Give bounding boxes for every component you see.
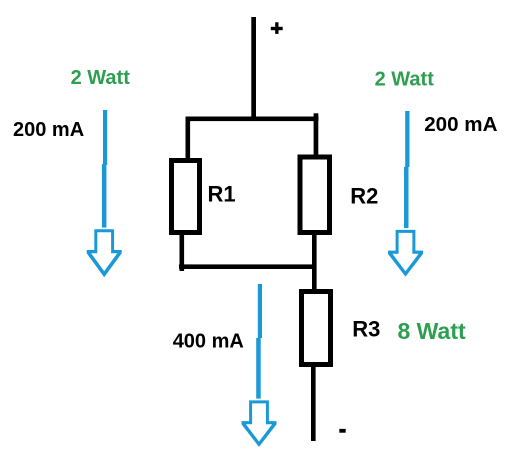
svg-text:2 Watt: 2 Watt (375, 69, 435, 91)
svg-text:R2: R2 (350, 184, 378, 209)
current arrow I2 head (right branch) (388, 230, 423, 277)
svg-text:2 Watt: 2 Watt (71, 67, 131, 89)
current arrow I3 head (total current) (242, 400, 277, 447)
label R1 (208, 182, 236, 207)
wire: bottom bus (179, 264, 317, 269)
label R3 (352, 317, 380, 342)
annotation: 200 mA (right branch current) (424, 113, 497, 136)
current arrow I1 shaft (left branch) (102, 110, 107, 228)
wire: R3 bottom negative lead (311, 364, 316, 441)
label R2 (350, 184, 378, 209)
svg-text:R1: R1 (208, 182, 236, 207)
svg-text:200 mA: 200 mA (424, 113, 497, 136)
wire: top bus (186, 117, 319, 122)
annotation: 2 Watt (left branch power) (71, 67, 131, 89)
wire: top positive lead (251, 17, 256, 119)
svg-text:400 mA: 400 mA (173, 331, 244, 353)
node: + terminal (271, 22, 283, 34)
svg-text:8 Watt: 8 Watt (398, 318, 466, 344)
node: - terminal (339, 429, 345, 433)
annotation: 2 Watt (right branch power) (375, 69, 435, 91)
wire: R1 bottom lead (180, 234, 185, 271)
wire: left branch drop to R1 (186, 117, 191, 160)
wire: R2 bottom lead through junction to R3 (312, 234, 317, 289)
annotation: 400 mA (total current) (173, 331, 244, 353)
svg-text:R3: R3 (352, 317, 380, 342)
annotation: 8 Watt (R3 power) (398, 318, 466, 344)
svg-text:200 mA: 200 mA (13, 119, 84, 141)
current arrow I2 shaft (right branch) (404, 111, 410, 228)
wire: right branch drop to R2 (314, 113, 319, 156)
annotation: 200 mA (left branch current) (13, 119, 84, 141)
current arrow I3 shaft (total current) (256, 284, 262, 399)
resistor R1 (172, 161, 200, 233)
current arrow I1 head (left branch) (87, 229, 122, 277)
resistor R3 (302, 292, 331, 365)
resistor R2 (300, 157, 330, 233)
